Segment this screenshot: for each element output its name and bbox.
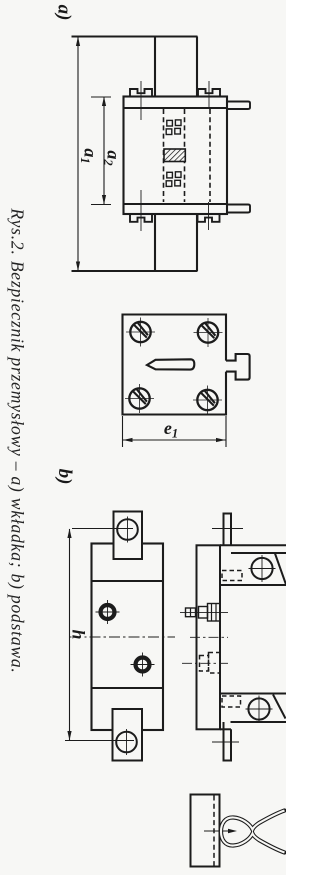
svg-text:a): a) <box>54 5 75 21</box>
top bracket lower sheet line <box>231 552 286 554</box>
top left lug <box>130 89 152 97</box>
bottom contact plate top edge <box>124 203 228 205</box>
bottom bracket bolt circle <box>248 698 269 719</box>
svg-text:h: h <box>69 629 89 639</box>
knife blade lower segment <box>154 214 156 271</box>
spring clip upper leaf <box>221 811 285 832</box>
screw bottom-right <box>193 386 222 415</box>
plate bottom edge extension <box>220 728 231 730</box>
clip hollow <box>221 811 285 832</box>
dimension h line <box>69 529 71 740</box>
bottom bracket diagonal <box>273 695 286 719</box>
clip centerline with arrow <box>204 830 230 832</box>
e1 dimension line <box>123 439 226 441</box>
hidden line right <box>209 109 211 202</box>
side contact tab <box>226 354 250 380</box>
fuse body side <box>220 585 287 694</box>
screw top-left <box>126 318 155 347</box>
top contact plate bottom edge <box>124 107 228 109</box>
element perforation squares lower <box>166 172 181 187</box>
blade bottom edge / extension line <box>72 270 198 272</box>
bottom right lug <box>198 214 220 222</box>
hidden element strip right edge <box>184 109 186 202</box>
blade top edge / extension line <box>72 35 198 37</box>
knife blade upper segment <box>154 37 156 97</box>
lug centerline top right <box>208 81 210 109</box>
top hidden hole <box>222 571 242 581</box>
h extension line bottom <box>65 740 134 742</box>
h extension line top <box>72 528 133 530</box>
divider line lower <box>92 687 164 689</box>
bottom foot centerline <box>212 741 239 743</box>
element perforation squares upper <box>166 120 181 135</box>
terminal screw side: centerline <box>180 611 228 613</box>
bottom mounting tab <box>113 709 143 761</box>
hidden screw centerline <box>182 662 228 664</box>
terminal screw washer <box>199 607 208 619</box>
lug centerline top left <box>140 81 142 120</box>
base side plate <box>197 545 221 729</box>
e1 extension line right <box>225 416 227 447</box>
top right lug <box>198 89 220 97</box>
terminal screw upper <box>96 600 120 624</box>
top foot bar <box>224 514 232 546</box>
dimension a2 line <box>103 97 105 204</box>
screw top-right <box>194 318 223 347</box>
spring clip lower leaf <box>221 832 285 853</box>
divider line upper <box>92 580 164 582</box>
grip lug slot <box>147 359 194 369</box>
e1 extension line left <box>122 416 124 447</box>
middle centerline <box>190 636 228 638</box>
lug centerline bottom right <box>208 202 210 230</box>
bottom left lug <box>130 214 152 222</box>
hatched M-effect blob <box>164 149 185 162</box>
top bracket bolt circle <box>251 558 272 579</box>
bottom right tab <box>227 205 250 213</box>
a2 extension tick bottom <box>91 204 111 206</box>
hidden element strip left edge <box>163 109 165 202</box>
screw bottom-left <box>125 384 154 413</box>
hidden screw washer <box>200 656 209 672</box>
top right tab <box>227 102 250 110</box>
label h <box>72 626 85 643</box>
top foot centerline <box>212 528 243 530</box>
dimension a1 line <box>77 38 79 271</box>
hidden edge dashed <box>213 796 215 866</box>
terminal screw lower <box>131 653 155 677</box>
base body rectangle <box>92 544 164 731</box>
terminal screw block <box>208 604 221 622</box>
svg-text:Rys.2. Bezpiecznik przemysłowy: Rys.2. Bezpiecznik przemysłowy – a) wkła… <box>8 207 28 673</box>
top bracket upper sheet line <box>220 544 286 546</box>
top mounting tab <box>114 512 143 560</box>
fuse body outline <box>124 97 228 215</box>
contact block rectangle <box>191 795 220 867</box>
top bracket diagonal <box>275 554 286 585</box>
bottom bracket lower sheet line <box>231 721 287 723</box>
terminal screw head <box>186 608 196 617</box>
lug centerline bottom left <box>140 190 142 231</box>
hidden screw block <box>209 653 221 674</box>
a2 extension tick top <box>91 96 111 98</box>
svg-text:b): b) <box>54 469 75 485</box>
bottom hidden hole <box>222 696 241 707</box>
horizontal centerline <box>70 636 175 638</box>
front face square <box>123 315 227 415</box>
bottom foot bar <box>224 722 232 761</box>
bottom tab hole <box>116 732 137 753</box>
top tab hole <box>117 519 138 540</box>
